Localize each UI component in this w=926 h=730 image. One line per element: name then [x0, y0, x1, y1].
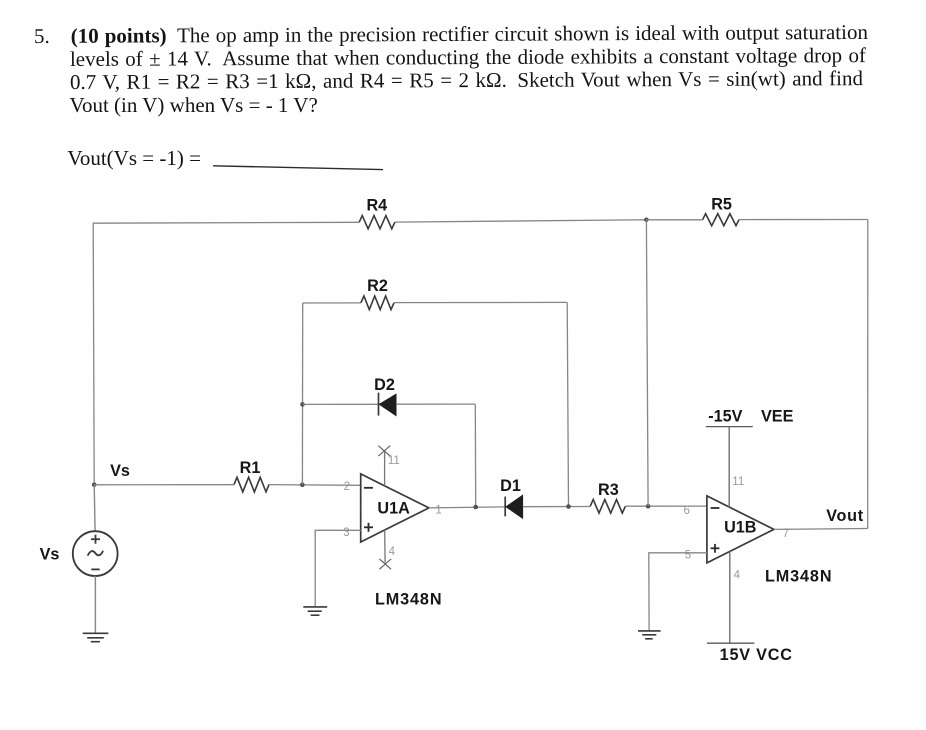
node R1 / feedback junction	[300, 482, 305, 487]
svg-text:2: 2	[344, 481, 350, 493]
svg-text:R5: R5	[711, 196, 732, 214]
wire top rail to R5	[646, 219, 702, 221]
problem statement line 3	[69, 66, 862, 95]
wire R3 to U1B inverting input	[625, 505, 707, 507]
node junction R4/R5/U1B input branch	[644, 218, 649, 223]
svg-text:11: 11	[732, 476, 744, 488]
svg-text:LM348N: LM348N	[375, 590, 442, 608]
svg-text:R4: R4	[366, 197, 387, 215]
resistor R1	[234, 477, 269, 492]
svg-text:5: 5	[685, 549, 691, 561]
resistor R2	[361, 296, 394, 310]
wire top rail left segment (node A to R4)	[93, 222, 359, 223]
wire U1A noninverting input to ground	[315, 530, 361, 607]
svg-text:4: 4	[734, 570, 741, 582]
node R2 leg junction	[566, 504, 571, 509]
answer blank underline	[213, 166, 383, 170]
wire Vs node to R1	[94, 484, 234, 486]
svg-text:R2: R2	[367, 277, 388, 295]
pin 4 stub U1B to VCC	[729, 551, 731, 643]
svg-text:Vout: Vout	[826, 507, 864, 525]
wire R2 right leg down to output node	[567, 302, 568, 506]
svg-text:Vs: Vs	[40, 545, 60, 563]
svg-text:U1A: U1A	[377, 499, 410, 517]
wire branch node to top rail	[646, 220, 648, 506]
svg-text:1: 1	[435, 504, 441, 516]
wire R2 top left segment	[303, 302, 361, 304]
node D2 left junction	[300, 402, 305, 407]
pin 11 stub U1B to VEE	[728, 427, 730, 508]
problem statement line 1	[34, 20, 868, 49]
svg-text:LM348N: LM348N	[765, 567, 832, 585]
pin 11 stub U1A (no connect)	[378, 446, 390, 486]
wire D2 right segment	[396, 403, 475, 405]
op-amp U1A	[361, 474, 429, 542]
ground (Vs source)	[83, 633, 109, 641]
svg-text:3: 3	[343, 527, 349, 539]
node U1B input / top-rail branch junction	[646, 504, 651, 509]
node Vs junction	[92, 483, 97, 488]
wire R1 to U1A inverting input	[269, 484, 361, 487]
svg-text:U1B: U1B	[724, 519, 756, 537]
wire D1 to R3	[523, 506, 590, 508]
diode D2	[379, 393, 397, 416]
svg-text:15V VCC: 15V VCC	[720, 646, 793, 664]
pin 4 stub U1A (no connect)	[379, 530, 391, 569]
ground (U1A noninverting input)	[303, 607, 327, 615]
ground (U1B noninverting input)	[638, 631, 661, 639]
op-amp U1B	[707, 496, 774, 563]
wire left rail (top rail down to Vs node)	[93, 223, 94, 485]
voltage source Vs	[73, 485, 118, 634]
svg-text:D1: D1	[500, 477, 521, 495]
svg-text:-15V: -15V	[708, 407, 742, 425]
svg-text:4: 4	[389, 546, 396, 558]
wire top rail right segment	[739, 219, 868, 221]
svg-text:VEE: VEE	[761, 407, 794, 425]
VEE supply bar	[706, 426, 753, 428]
wire right rail (down to Vout node)	[867, 220, 869, 529]
wire top rail middle segment (R4 to R5 node)	[395, 220, 647, 222]
node D2 leg / output junction	[473, 505, 478, 510]
svg-text:D2: D2	[374, 376, 395, 394]
wire U1B output to Vout	[774, 528, 868, 531]
wire D2 left segment	[303, 403, 379, 405]
resistor R3	[590, 500, 625, 514]
answer prompt	[67, 146, 201, 171]
svg-text:R1: R1	[240, 459, 261, 477]
VCC supply bar	[707, 642, 755, 644]
resistor R4	[359, 216, 395, 229]
svg-text:11: 11	[388, 455, 400, 467]
svg-text:6: 6	[684, 505, 690, 517]
wire R2 right segment	[394, 301, 567, 303]
svg-text:Vs: Vs	[110, 462, 130, 480]
wire U1B noninverting input to ground	[649, 553, 707, 631]
resistor R5	[703, 214, 739, 226]
wire feedback branch vertical (R2 left leg)	[301, 303, 303, 485]
wire U1A output segment	[429, 507, 505, 508]
wire D2 right leg down to output node	[474, 404, 476, 507]
problem statement line 4	[70, 93, 318, 118]
svg-text:R3: R3	[598, 481, 619, 499]
diode D1	[505, 495, 523, 519]
problem statement line 2	[69, 43, 865, 72]
